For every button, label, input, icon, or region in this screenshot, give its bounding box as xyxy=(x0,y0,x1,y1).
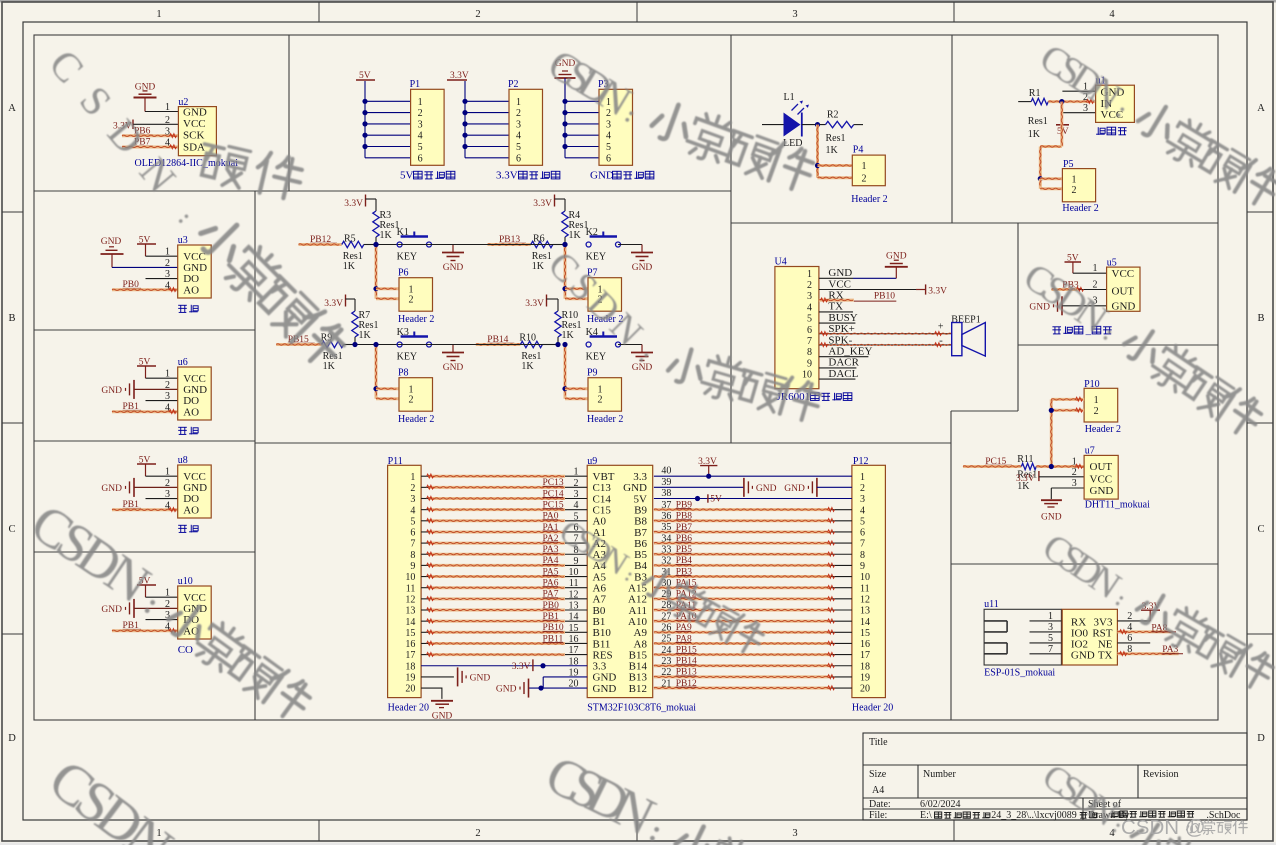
svg-text:4: 4 xyxy=(165,500,170,511)
svg-text:Size: Size xyxy=(869,769,887,780)
svg-text:GND: GND xyxy=(101,237,122,247)
svg-text:14: 14 xyxy=(569,612,579,623)
svg-text:u11: u11 xyxy=(984,599,999,610)
svg-text:SCK: SCK xyxy=(183,130,204,142)
svg-text:15: 15 xyxy=(569,623,579,634)
svg-text:21: 21 xyxy=(661,678,671,689)
svg-text:34: 34 xyxy=(661,533,671,544)
svg-text:OUT: OUT xyxy=(1090,461,1113,473)
svg-text:3.3V: 3.3V xyxy=(512,662,531,672)
svg-text:1: 1 xyxy=(165,588,170,599)
svg-text:u7: u7 xyxy=(1085,446,1095,457)
svg-text:STM32F103C8T6_mokuai: STM32F103C8T6_mokuai xyxy=(587,703,696,714)
svg-text:3: 3 xyxy=(807,291,812,302)
svg-text:P5: P5 xyxy=(1063,159,1074,170)
svg-text:P8: P8 xyxy=(398,368,409,379)
svg-text:11: 11 xyxy=(569,578,579,589)
svg-text:4: 4 xyxy=(410,505,415,516)
svg-text:4: 4 xyxy=(807,302,812,313)
svg-text:TX: TX xyxy=(828,301,843,313)
svg-text:3: 3 xyxy=(165,489,170,500)
svg-text:3: 3 xyxy=(516,119,521,130)
svg-text:GND: GND xyxy=(590,170,614,182)
svg-text:2: 2 xyxy=(516,108,521,119)
svg-text:5: 5 xyxy=(807,314,812,325)
svg-text:R6: R6 xyxy=(533,234,545,245)
svg-text:1K: 1K xyxy=(826,145,839,156)
svg-text:6: 6 xyxy=(418,153,423,164)
svg-text:Header 2: Header 2 xyxy=(1062,203,1098,214)
svg-text:P4: P4 xyxy=(853,145,864,156)
svg-text:KEY: KEY xyxy=(397,352,418,363)
svg-text:10: 10 xyxy=(860,572,870,583)
svg-text:u10: u10 xyxy=(178,576,193,587)
svg-text:1: 1 xyxy=(1048,611,1053,622)
svg-text:3: 3 xyxy=(792,9,797,20)
svg-text:Res1: Res1 xyxy=(826,133,846,144)
svg-text:4: 4 xyxy=(1109,9,1115,20)
svg-text:AO: AO xyxy=(183,504,199,516)
svg-text:GND: GND xyxy=(593,683,617,695)
svg-text:VCC: VCC xyxy=(183,118,206,130)
svg-text:5: 5 xyxy=(1048,633,1053,644)
svg-text:SDA: SDA xyxy=(183,141,205,153)
svg-text:P6: P6 xyxy=(398,268,409,279)
svg-text:OUT: OUT xyxy=(1112,286,1135,298)
svg-text:4: 4 xyxy=(165,621,170,632)
svg-text:Res1: Res1 xyxy=(1028,116,1048,127)
svg-text:TX: TX xyxy=(1098,649,1113,661)
svg-text:6: 6 xyxy=(1127,633,1132,644)
svg-text:3.3V: 3.3V xyxy=(1016,474,1035,484)
svg-text:B: B xyxy=(1257,313,1264,324)
svg-text:1: 1 xyxy=(516,97,521,108)
svg-text:1: 1 xyxy=(165,369,170,380)
svg-text:12: 12 xyxy=(860,594,870,605)
svg-text:12: 12 xyxy=(405,594,415,605)
svg-text:A4: A4 xyxy=(872,785,884,796)
svg-text:20: 20 xyxy=(405,684,415,695)
svg-text:4: 4 xyxy=(860,505,865,516)
svg-text:13: 13 xyxy=(569,601,579,612)
svg-text:K3: K3 xyxy=(397,327,409,338)
svg-text:2: 2 xyxy=(1072,467,1077,478)
svg-text:GND: GND xyxy=(828,267,852,279)
svg-text:Title: Title xyxy=(869,737,888,748)
svg-text:2: 2 xyxy=(165,478,170,489)
svg-text:K2: K2 xyxy=(586,227,598,238)
svg-text:PB10: PB10 xyxy=(874,292,895,302)
svg-text:2: 2 xyxy=(409,294,414,305)
svg-text:VCC: VCC xyxy=(183,373,206,385)
svg-text:File:: File: xyxy=(869,810,887,821)
svg-text:1K: 1K xyxy=(380,230,393,241)
svg-text:8: 8 xyxy=(410,550,415,561)
svg-text:2: 2 xyxy=(1072,185,1077,196)
svg-text:14: 14 xyxy=(405,617,415,628)
svg-text:E:\: E:\ xyxy=(920,810,932,821)
svg-text:16: 16 xyxy=(569,634,579,645)
svg-text:GND: GND xyxy=(1071,649,1095,661)
svg-text:-: - xyxy=(939,335,943,347)
svg-text:4: 4 xyxy=(418,131,423,142)
svg-text:15: 15 xyxy=(405,628,415,639)
svg-text:1K: 1K xyxy=(562,330,575,341)
svg-text:16: 16 xyxy=(405,639,415,650)
svg-text:2: 2 xyxy=(1127,611,1132,622)
svg-text:u8: u8 xyxy=(178,455,188,466)
svg-text:1: 1 xyxy=(418,97,423,108)
svg-text:4: 4 xyxy=(165,138,170,149)
svg-text:BUSY: BUSY xyxy=(828,312,857,324)
svg-text:13: 13 xyxy=(405,606,415,617)
svg-text:.SchDoc: .SchDoc xyxy=(1206,810,1241,821)
svg-text:24_3_28\..\lxcvj0089: 24_3_28\..\lxcvj0089 xyxy=(991,810,1077,821)
svg-text:10: 10 xyxy=(802,370,812,381)
svg-text:1: 1 xyxy=(807,269,812,280)
svg-text:ESP-01S_mokuai: ESP-01S_mokuai xyxy=(984,667,1055,678)
svg-text:5: 5 xyxy=(410,516,415,527)
svg-text:5: 5 xyxy=(606,142,611,153)
svg-text:22: 22 xyxy=(661,667,671,678)
svg-text:1: 1 xyxy=(1072,174,1077,185)
svg-text:Header 20: Header 20 xyxy=(388,703,429,714)
svg-text:2: 2 xyxy=(475,828,480,839)
svg-text:8: 8 xyxy=(807,347,812,358)
svg-text:R11: R11 xyxy=(1017,454,1033,465)
svg-text:2: 2 xyxy=(574,478,579,489)
svg-text:C: C xyxy=(1257,524,1264,535)
svg-text:+: + xyxy=(938,322,944,333)
svg-text:7: 7 xyxy=(410,539,415,550)
svg-text:17: 17 xyxy=(405,650,415,661)
svg-text:6: 6 xyxy=(860,528,865,539)
svg-text:B: B xyxy=(8,313,15,324)
svg-text:P2: P2 xyxy=(508,79,519,90)
svg-text:GND: GND xyxy=(632,263,653,273)
svg-text:DACL: DACL xyxy=(828,368,858,380)
svg-text:20: 20 xyxy=(860,684,870,695)
svg-text:2: 2 xyxy=(165,599,170,610)
svg-text:4: 4 xyxy=(1127,622,1132,633)
svg-text:25: 25 xyxy=(661,634,671,645)
svg-text:u3: u3 xyxy=(178,235,188,246)
svg-text:4: 4 xyxy=(606,131,611,142)
svg-text:AO: AO xyxy=(183,406,199,418)
svg-text:Header 2: Header 2 xyxy=(398,414,434,425)
svg-text:20: 20 xyxy=(569,679,579,690)
svg-text:GND: GND xyxy=(756,484,777,494)
svg-text:C: C xyxy=(8,524,15,535)
svg-text:GND: GND xyxy=(443,263,464,273)
svg-text:B12: B12 xyxy=(629,683,647,695)
svg-text:3: 3 xyxy=(574,489,579,500)
svg-text:1: 1 xyxy=(165,247,170,258)
svg-text:u5: u5 xyxy=(1107,258,1117,269)
svg-text:2: 2 xyxy=(409,394,414,405)
svg-text:KEY: KEY xyxy=(397,252,418,263)
svg-text:3.3V: 3.3V xyxy=(324,299,343,309)
svg-text:3: 3 xyxy=(165,391,170,402)
svg-text:7: 7 xyxy=(807,336,812,347)
svg-text:Number: Number xyxy=(923,769,956,780)
svg-text:P9: P9 xyxy=(587,368,598,379)
svg-text:GND: GND xyxy=(432,712,453,722)
svg-text:A: A xyxy=(1257,103,1265,114)
svg-text:K1: K1 xyxy=(397,227,409,238)
svg-text:R5: R5 xyxy=(344,234,356,245)
svg-text:GND: GND xyxy=(784,484,805,494)
svg-text:3: 3 xyxy=(165,269,170,280)
svg-text:1: 1 xyxy=(574,467,579,478)
svg-text:6: 6 xyxy=(516,153,521,164)
svg-text:18: 18 xyxy=(405,661,415,672)
svg-text:GND: GND xyxy=(470,673,491,683)
svg-text:32: 32 xyxy=(661,556,671,567)
svg-text:GND: GND xyxy=(1090,485,1114,497)
svg-text:1K: 1K xyxy=(343,261,356,272)
svg-text:DACR: DACR xyxy=(828,357,859,369)
svg-text:AO: AO xyxy=(183,284,199,296)
svg-text:4: 4 xyxy=(574,500,579,511)
svg-text:1: 1 xyxy=(156,9,161,20)
svg-text:Revision: Revision xyxy=(1143,769,1179,780)
svg-text:2: 2 xyxy=(418,108,423,119)
svg-text:26: 26 xyxy=(661,623,671,634)
svg-text:KEY: KEY xyxy=(586,352,607,363)
svg-text:8: 8 xyxy=(1127,644,1132,655)
svg-text:GND: GND xyxy=(183,262,207,274)
svg-text:R2: R2 xyxy=(827,110,839,121)
svg-text:35: 35 xyxy=(661,522,671,533)
svg-text:VCC: VCC xyxy=(183,592,206,604)
svg-text:1: 1 xyxy=(410,472,415,483)
svg-text:1K: 1K xyxy=(521,361,534,372)
svg-text:10: 10 xyxy=(405,572,415,583)
svg-text:R10: R10 xyxy=(519,333,536,344)
svg-text:2: 2 xyxy=(475,9,480,20)
svg-text:2: 2 xyxy=(598,394,603,405)
svg-text:2: 2 xyxy=(410,483,415,494)
svg-text:R1: R1 xyxy=(1029,88,1041,99)
svg-text:3: 3 xyxy=(792,828,797,839)
svg-text:3: 3 xyxy=(418,119,423,130)
svg-text:KEY: KEY xyxy=(586,252,607,263)
svg-text:DO: DO xyxy=(183,273,199,285)
svg-text:6: 6 xyxy=(807,325,812,336)
svg-text:2: 2 xyxy=(165,380,170,391)
svg-text:19: 19 xyxy=(405,673,415,684)
svg-text:9: 9 xyxy=(410,561,415,572)
svg-text:9: 9 xyxy=(807,358,812,369)
svg-text:18: 18 xyxy=(569,656,579,667)
svg-text:23: 23 xyxy=(661,656,671,667)
svg-text:12: 12 xyxy=(569,589,579,600)
svg-text:3: 3 xyxy=(1048,622,1053,633)
svg-text:7: 7 xyxy=(1048,644,1053,655)
svg-text:Header 2: Header 2 xyxy=(587,414,623,425)
svg-text:GND: GND xyxy=(443,363,464,373)
svg-text:5: 5 xyxy=(516,142,521,153)
svg-text:1: 1 xyxy=(1094,395,1099,406)
svg-text:9: 9 xyxy=(860,561,865,572)
svg-text:1: 1 xyxy=(860,472,865,483)
svg-text:1: 1 xyxy=(165,102,170,113)
svg-text:GND: GND xyxy=(183,384,207,396)
svg-text:VCC: VCC xyxy=(1090,474,1113,486)
svg-text:D: D xyxy=(1257,733,1265,744)
svg-text:39: 39 xyxy=(661,477,671,488)
svg-text:7: 7 xyxy=(860,539,865,550)
svg-text:2: 2 xyxy=(165,258,170,269)
svg-text:1: 1 xyxy=(1093,263,1098,274)
svg-text:AD_KEY: AD_KEY xyxy=(828,346,872,358)
svg-text:GND: GND xyxy=(183,482,207,494)
svg-text:16: 16 xyxy=(860,639,870,650)
svg-text:3.3V: 3.3V xyxy=(928,286,947,296)
svg-text:19: 19 xyxy=(860,673,870,684)
svg-text:5: 5 xyxy=(418,142,423,153)
svg-text:1K: 1K xyxy=(323,361,336,372)
svg-text:2: 2 xyxy=(1094,406,1099,417)
svg-text:U4: U4 xyxy=(775,257,787,268)
svg-text:6/02/2024: 6/02/2024 xyxy=(920,799,961,810)
svg-text:3: 3 xyxy=(1072,478,1077,489)
svg-text:3: 3 xyxy=(860,494,865,505)
svg-text:P1: P1 xyxy=(410,79,421,90)
svg-text:4: 4 xyxy=(165,280,170,291)
svg-text:GND: GND xyxy=(496,685,517,695)
svg-text:13: 13 xyxy=(860,606,870,617)
svg-text:27: 27 xyxy=(661,611,671,622)
svg-text:A: A xyxy=(8,103,16,114)
svg-text:36: 36 xyxy=(661,511,671,522)
svg-text:1: 1 xyxy=(862,161,867,172)
svg-text:GND: GND xyxy=(101,484,122,494)
svg-text:GND: GND xyxy=(101,386,122,396)
svg-text:18: 18 xyxy=(860,661,870,672)
svg-text:3.3V: 3.3V xyxy=(344,199,363,209)
svg-text:GND: GND xyxy=(1041,513,1062,523)
svg-text:14: 14 xyxy=(860,617,870,628)
svg-text:10: 10 xyxy=(569,567,579,578)
svg-text:Header 2: Header 2 xyxy=(1085,424,1121,435)
svg-text:24: 24 xyxy=(661,645,671,656)
svg-text:17: 17 xyxy=(860,650,870,661)
svg-text:D: D xyxy=(8,733,16,744)
svg-text:5V: 5V xyxy=(400,170,414,182)
svg-text:3.3V: 3.3V xyxy=(525,299,544,309)
svg-text:15: 15 xyxy=(860,628,870,639)
svg-text:u6: u6 xyxy=(178,357,188,368)
svg-text:Header 2: Header 2 xyxy=(398,314,434,325)
svg-text:6: 6 xyxy=(410,528,415,539)
svg-text:40: 40 xyxy=(661,466,671,477)
svg-text:GND: GND xyxy=(632,363,653,373)
svg-text:GND: GND xyxy=(183,107,207,119)
svg-text:3.3V: 3.3V xyxy=(496,170,518,182)
svg-text:BEEP1: BEEP1 xyxy=(951,315,980,326)
svg-text:1K: 1K xyxy=(359,330,372,341)
svg-text:3: 3 xyxy=(165,126,170,137)
svg-text:Header 20: Header 20 xyxy=(852,703,893,714)
svg-text:2: 2 xyxy=(862,173,867,184)
svg-text:1K: 1K xyxy=(1028,129,1041,140)
svg-text:3: 3 xyxy=(410,494,415,505)
svg-text:37: 37 xyxy=(661,500,671,511)
svg-text:11: 11 xyxy=(406,583,416,594)
svg-text:3.3V: 3.3V xyxy=(533,199,552,209)
svg-text:VCC: VCC xyxy=(828,278,851,290)
svg-text:DHT11_mokuai: DHT11_mokuai xyxy=(1085,500,1150,511)
svg-text:DO: DO xyxy=(183,395,199,407)
svg-text:VCC: VCC xyxy=(183,251,206,263)
svg-text:17: 17 xyxy=(569,645,579,656)
svg-text:5V: 5V xyxy=(710,494,722,504)
svg-text:1: 1 xyxy=(165,467,170,478)
svg-text:2: 2 xyxy=(807,280,812,291)
svg-text:VCC: VCC xyxy=(183,471,206,483)
svg-text:GND: GND xyxy=(1112,301,1136,313)
svg-text:1K: 1K xyxy=(569,230,582,241)
svg-text:VCC: VCC xyxy=(1112,268,1135,280)
svg-text:33: 33 xyxy=(661,544,671,555)
svg-text:L1: L1 xyxy=(784,92,795,103)
svg-text:11: 11 xyxy=(860,583,870,594)
svg-text:CO: CO xyxy=(178,644,193,656)
svg-text:2: 2 xyxy=(860,483,865,494)
svg-text:5: 5 xyxy=(860,516,865,527)
svg-text:6: 6 xyxy=(606,153,611,164)
svg-text:DO: DO xyxy=(183,493,199,505)
svg-text:2: 2 xyxy=(165,115,170,126)
svg-text:Date:: Date: xyxy=(869,799,891,810)
svg-text:4: 4 xyxy=(165,402,170,413)
svg-text:8: 8 xyxy=(860,550,865,561)
svg-text:Header 2: Header 2 xyxy=(851,194,887,205)
svg-text:38: 38 xyxy=(661,488,671,499)
svg-text:4: 4 xyxy=(516,131,521,142)
